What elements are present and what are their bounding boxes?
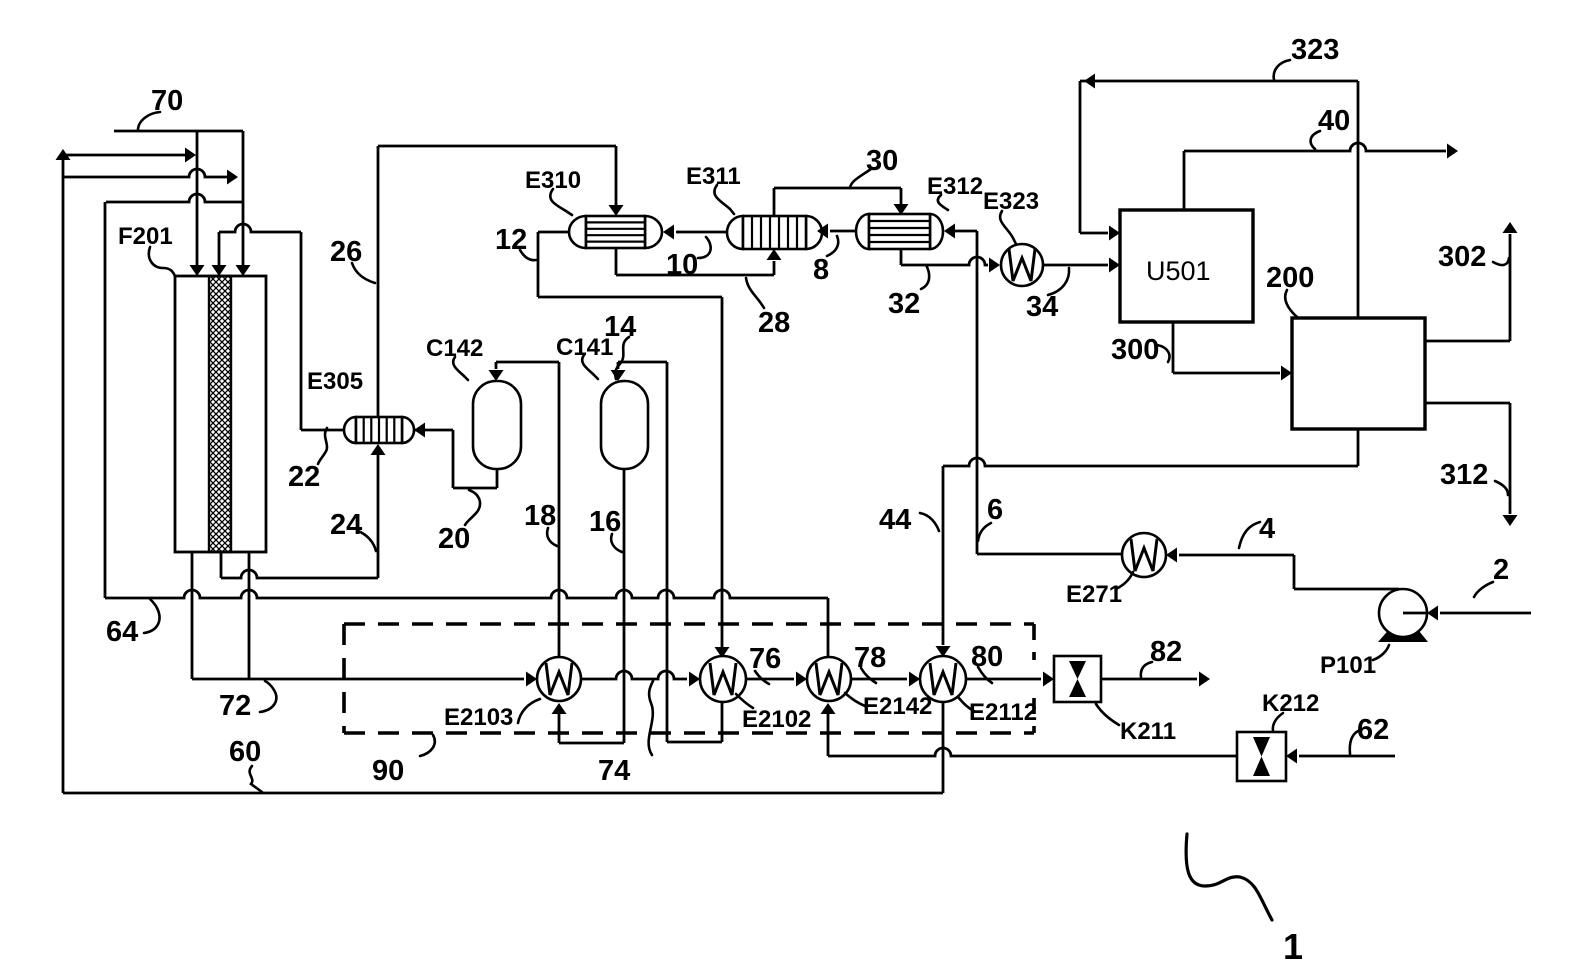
svg-text:14: 14 — [604, 311, 636, 343]
svg-text:10: 10 — [666, 249, 698, 281]
svg-text:18: 18 — [524, 500, 556, 532]
svg-text:82: 82 — [1150, 636, 1182, 668]
svg-text:312: 312 — [1440, 459, 1488, 491]
svg-text:12: 12 — [495, 224, 527, 256]
svg-text:U501: U501 — [1146, 256, 1211, 286]
svg-text:64: 64 — [106, 616, 138, 648]
svg-text:E2102: E2102 — [742, 706, 811, 733]
svg-text:P101: P101 — [1320, 652, 1376, 679]
svg-text:30: 30 — [866, 145, 898, 177]
svg-text:300: 300 — [1111, 334, 1159, 366]
svg-text:E271: E271 — [1066, 581, 1122, 608]
svg-text:26: 26 — [330, 236, 362, 268]
svg-text:76: 76 — [749, 643, 781, 675]
svg-text:F201: F201 — [118, 223, 173, 250]
svg-text:E2112: E2112 — [969, 699, 1037, 726]
svg-text:E323: E323 — [983, 188, 1039, 215]
svg-text:200: 200 — [1266, 262, 1314, 294]
svg-text:E305: E305 — [307, 368, 363, 395]
svg-text:32: 32 — [888, 288, 920, 320]
svg-text:72: 72 — [219, 690, 251, 722]
svg-text:E311: E311 — [686, 163, 741, 190]
svg-text:22: 22 — [288, 461, 320, 493]
svg-text:E312: E312 — [927, 173, 983, 200]
svg-text:E2142: E2142 — [863, 693, 932, 720]
svg-text:2: 2 — [1493, 554, 1509, 586]
svg-text:60: 60 — [229, 736, 261, 768]
svg-text:74: 74 — [598, 755, 630, 787]
svg-text:K211: K211 — [1120, 718, 1176, 745]
svg-text:78: 78 — [854, 642, 886, 674]
svg-text:80: 80 — [971, 641, 1003, 673]
svg-text:28: 28 — [758, 307, 790, 339]
svg-text:323: 323 — [1291, 34, 1339, 66]
svg-text:302: 302 — [1438, 241, 1486, 273]
svg-text:24: 24 — [330, 509, 362, 541]
svg-text:44: 44 — [879, 504, 911, 536]
svg-text:16: 16 — [589, 506, 621, 538]
svg-text:6: 6 — [987, 494, 1003, 526]
svg-text:62: 62 — [1357, 714, 1389, 746]
svg-text:90: 90 — [372, 755, 404, 787]
svg-text:4: 4 — [1259, 513, 1275, 545]
svg-text:1: 1 — [1283, 926, 1303, 967]
svg-text:8: 8 — [813, 254, 829, 286]
svg-text:40: 40 — [1318, 105, 1350, 137]
svg-text:34: 34 — [1026, 291, 1058, 323]
svg-text:K212: K212 — [1262, 690, 1319, 717]
svg-text:20: 20 — [438, 523, 470, 555]
svg-text:E2103: E2103 — [444, 704, 513, 731]
